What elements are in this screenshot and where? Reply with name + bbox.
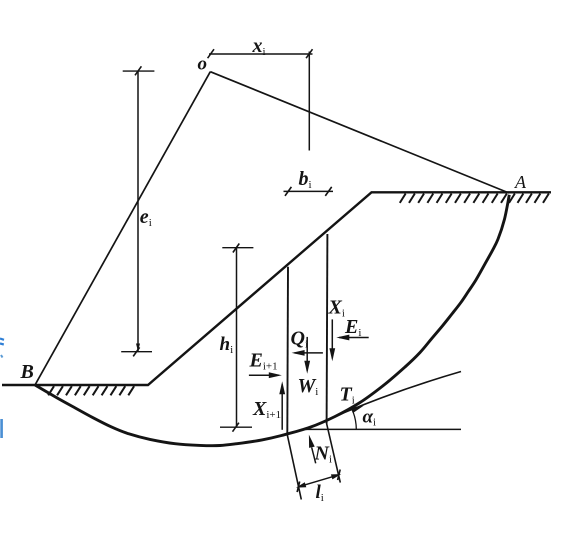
slice left edge [286,267,289,435]
angle arc alpha_i [353,412,356,429]
blue pen mark lower left edge [0,419,3,438]
svg-text:hi: hi [220,334,234,356]
hatching upper ground [400,194,549,203]
slice right edge extension below slip surface [327,424,341,483]
svg-text:αi: αi [363,407,377,429]
tangent line at slice base (T direction) [306,372,461,430]
interslice force E_i+1 arrow [249,374,279,376]
svg-text:Ei: Ei [344,316,361,339]
svg-text:Ti: Ti [340,384,355,407]
ground surface outline (lower ground, slope face, upper ground) [2,192,551,385]
svg-text:Ni: Ni [314,443,333,466]
horizontal reference line at slice base [301,428,461,430]
slice right edge [326,234,329,424]
blue pen mark upper left edge [0,339,4,345]
shear force T_i arrowhead on tangent [351,406,364,414]
svg-text:o: o [198,54,208,75]
svg-text:Wi: Wi [298,375,319,398]
normal force N_i arrow [312,448,316,464]
dimension x_i line [209,53,313,55]
svg-text:ei: ei [140,206,152,229]
svg-text:bi: bi [299,168,312,191]
svg-text:A: A [514,172,527,192]
hatching lower ground [48,386,134,395]
load force Q_i arrow [295,352,323,354]
radius line o to B [35,72,210,385]
radius line o to A [210,72,509,193]
svg-text:Xi+1: Xi+1 [252,398,281,421]
interslice shear X_i arrow [331,319,333,358]
slice left edge extension below slip surface [287,435,301,500]
extension line below x_i right end [308,52,310,151]
dimension l_i slanted line under slice base [298,475,339,487]
svg-text:Ei+1: Ei+1 [249,350,278,373]
dimension b_i line [284,190,334,192]
svg-text:xi: xi [252,35,266,58]
slip circle arc from B to A [35,195,509,446]
svg-text:Qi: Qi [291,328,309,351]
dimension h_i vertical line [236,248,238,428]
interslice force E_i arrow [339,337,369,339]
svg-text:li: li [316,482,324,504]
svg-text:Xi: Xi [328,297,345,320]
weight force W_i arrow [306,337,308,371]
dimension e_i vertical line [137,71,139,352]
svg-text:B: B [20,361,34,383]
interslice shear X_i+1 arrow [281,384,283,430]
